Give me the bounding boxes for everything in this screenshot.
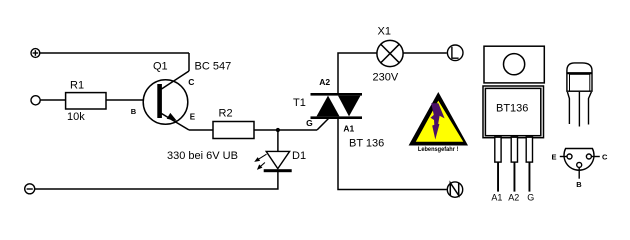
lamp X1	[377, 40, 403, 66]
svg-text:X1: X1	[378, 26, 391, 38]
warning sign triangle	[409, 92, 468, 146]
svg-text:230V: 230V	[373, 72, 399, 84]
wire top rail	[40, 52, 189, 54]
svg-text:G: G	[306, 118, 313, 128]
wire A1 down to N rail	[338, 119, 447, 190]
svg-text:A1: A1	[491, 193, 502, 203]
svg-text:E: E	[190, 112, 196, 121]
transistor Q1	[143, 71, 189, 130]
letter N	[450, 183, 458, 196]
svg-text:BT136: BT136	[496, 102, 528, 114]
svg-text:A2: A2	[508, 193, 519, 203]
svg-text:R1: R1	[70, 80, 84, 92]
wire terminal to R1	[40, 99, 65, 101]
terminal plus (+)	[31, 49, 40, 58]
wire junction down to LED	[277, 130, 279, 151]
wire emitter to R2	[189, 129, 213, 131]
triac T1	[311, 93, 363, 119]
svg-text:C: C	[602, 153, 608, 162]
wire gate diagonal	[317, 118, 329, 130]
svg-text:10k: 10k	[67, 111, 85, 123]
resistor R2	[213, 122, 254, 139]
terminal N	[447, 182, 462, 197]
svg-text:Lebensgefahr !: Lebensgefahr !	[418, 147, 459, 153]
svg-text:BC 547: BC 547	[195, 60, 232, 72]
svg-text:T1: T1	[293, 97, 306, 109]
svg-text:D1: D1	[292, 150, 306, 162]
svg-text:A1: A1	[343, 124, 354, 134]
wire collector drop	[188, 53, 190, 71]
svg-text:B: B	[576, 180, 582, 189]
pin A2 (package)	[511, 137, 517, 191]
svg-text:330 bei 6V UB: 330 bei 6V UB	[167, 150, 238, 162]
LED D1	[254, 151, 292, 172]
terminal minus (-)	[25, 184, 35, 194]
TO-92 bottom view	[560, 149, 600, 179]
terminal input (open circle)	[31, 96, 40, 105]
wire A2 up to lamp rail	[338, 53, 377, 93]
wire R1 to base	[106, 99, 144, 101]
svg-text:R2: R2	[219, 108, 233, 120]
svg-text:Q1: Q1	[153, 60, 168, 72]
svg-text:B: B	[131, 107, 137, 116]
svg-text:A2: A2	[319, 77, 330, 87]
wire lamp to L	[404, 52, 447, 54]
svg-text:E: E	[552, 153, 557, 162]
lightning bolt	[431, 103, 445, 139]
junction	[276, 128, 280, 132]
resistor R1	[66, 93, 106, 109]
svg-text:BT 136: BT 136	[349, 137, 384, 149]
pin A1 (package)	[495, 137, 501, 191]
TO-220 package BT136	[483, 46, 544, 138]
pin G (package)	[526, 137, 532, 191]
svg-text:C: C	[188, 77, 194, 87]
terminal L	[447, 45, 463, 61]
wire R2 to gate	[254, 129, 317, 131]
letter L	[452, 47, 459, 58]
svg-text:G: G	[527, 193, 534, 203]
TO-92 side view	[567, 63, 592, 127]
wire LED to bottom rail	[35, 172, 278, 189]
